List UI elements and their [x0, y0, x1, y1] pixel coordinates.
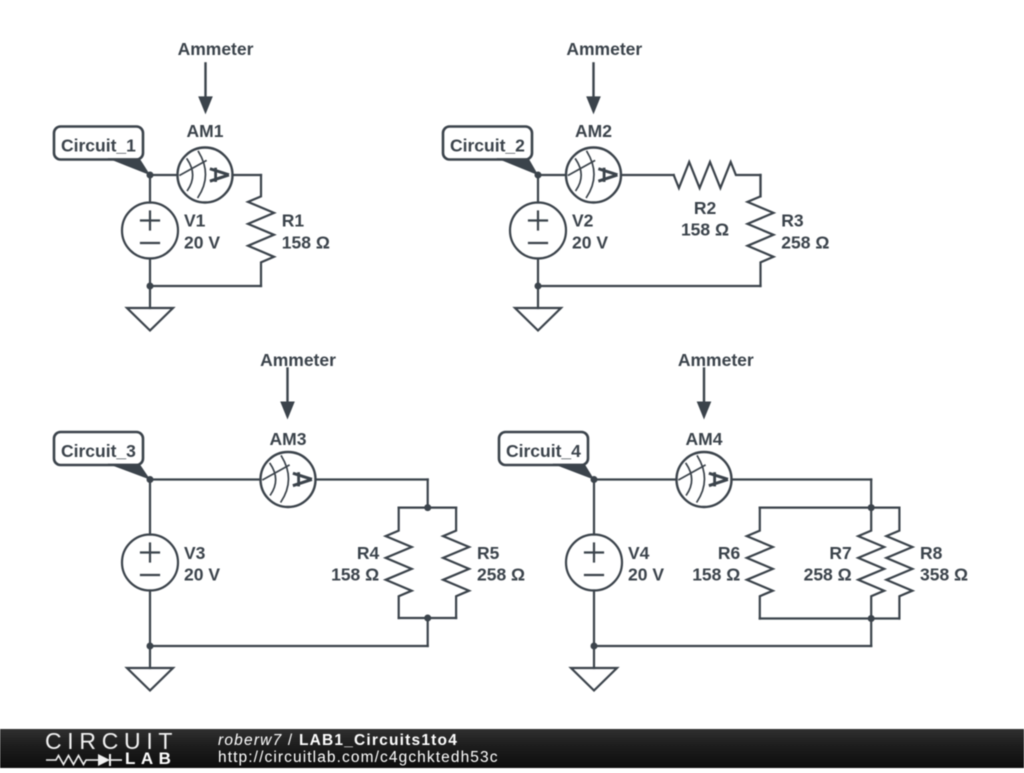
resistor R6 [747, 508, 773, 619]
logo LAB text [125, 750, 176, 767]
callout Circuit_3 [54, 432, 143, 465]
svg-text:AM2: AM2 [575, 121, 612, 141]
svg-text:Ammeter: Ammeter [178, 39, 254, 59]
svg-text:20 V: 20 V [184, 232, 220, 252]
svg-text:R3: R3 [781, 211, 804, 231]
node A2 [535, 172, 542, 179]
svg-text:158 Ω: 158 Ω [282, 232, 330, 252]
footer url [218, 750, 499, 766]
resistor R7 [858, 508, 884, 619]
svg-text:V3: V3 [184, 543, 206, 563]
svg-text:R4: R4 [357, 543, 380, 563]
svg-text:258 Ω: 258 Ω [804, 565, 852, 585]
wire bottom bus circuit 3 [399, 617, 456, 619]
wire bottom rail circuit 3 [150, 645, 428, 647]
wire right rail circuit 2 [759, 175, 761, 196]
svg-text:V4: V4 [628, 543, 650, 563]
svg-text:258 Ω: 258 Ω [781, 232, 829, 252]
wire feed to parallel pair [427, 480, 429, 508]
voltage source V2 [537, 175, 539, 203]
arrow to AM4 [703, 369, 705, 403]
svg-text:V1: V1 [184, 211, 206, 231]
wire bottom rail circuit 2 [538, 285, 761, 287]
svg-text:Circuit_2: Circuit_2 [450, 135, 525, 155]
arrow to AM2 [592, 63, 594, 97]
ammeter AM1 [178, 148, 233, 203]
wire top bus circuit 4 [760, 507, 900, 509]
svg-text:R1: R1 [282, 211, 305, 231]
resistor R2 (series horizontal) [674, 162, 761, 188]
callout Circuit_1 [54, 127, 143, 160]
svg-text:Ammeter: Ammeter [566, 39, 642, 59]
svg-text:258 Ω: 258 Ω [477, 565, 525, 585]
node A1 (V1+/AM1 junction) [147, 172, 154, 179]
node B2 [535, 283, 542, 290]
voltage source V1 [149, 175, 151, 203]
svg-text:Circuit_1: Circuit_1 [61, 135, 136, 155]
svg-text:R2: R2 [694, 198, 717, 218]
resistor R3 [748, 175, 774, 286]
svg-text:20 V: 20 V [628, 565, 664, 585]
svg-text:V2: V2 [572, 211, 594, 231]
voltage source V4 [593, 480, 595, 535]
svg-text:AM3: AM3 [270, 429, 307, 449]
svg-text:Circuit_4: Circuit_4 [506, 441, 581, 461]
svg-text:R5: R5 [477, 543, 500, 563]
footer bar [0, 729, 1024, 769]
wire down from parallel pair [427, 618, 429, 646]
voltage source V3 [149, 480, 151, 535]
resistor R8 [886, 508, 912, 619]
wire down from parallel trio [870, 619, 872, 647]
ground circuit 4 [593, 646, 595, 668]
ammeter AM2 [566, 148, 621, 203]
svg-text:20 V: 20 V [572, 232, 608, 252]
svg-text:Ammeter: Ammeter [260, 350, 336, 370]
wire bottom rail circuit 1 [150, 285, 261, 287]
wire top bus circuit 3 [399, 507, 456, 509]
wire bottom bus circuit 4 [760, 617, 900, 619]
wire feed to parallel trio [870, 480, 872, 508]
callout Circuit_4 [499, 432, 588, 465]
node B4 [591, 643, 598, 650]
resistor R1 [248, 175, 274, 286]
node D4 bottom junction [868, 615, 875, 622]
ground circuit 2 [537, 286, 539, 308]
svg-text:158 Ω: 158 Ω [681, 219, 729, 239]
svg-text:R6: R6 [718, 543, 741, 563]
arrow to AM1 [204, 63, 206, 97]
node C4 top junction [868, 504, 875, 511]
node C3 top junction [424, 504, 431, 511]
svg-text:AM1: AM1 [187, 121, 224, 141]
svg-text:Circuit_3: Circuit_3 [61, 441, 136, 461]
node D3 bottom junction [424, 615, 431, 622]
svg-text:R7: R7 [829, 543, 851, 563]
ammeter AM4 [677, 452, 732, 507]
ammeter AM3 [261, 452, 316, 507]
callout Circuit_2 [443, 127, 532, 160]
svg-text:R8: R8 [920, 543, 943, 563]
svg-text:358 Ω: 358 Ω [920, 565, 968, 585]
node B1 (ground junction) [147, 283, 154, 290]
ground circuit 3 [149, 646, 151, 668]
node A3 [147, 476, 154, 483]
svg-text:AM4: AM4 [686, 429, 723, 449]
svg-text:20 V: 20 V [184, 565, 220, 585]
footer title [218, 733, 458, 749]
wire bottom rail circuit 4 [594, 645, 871, 647]
resistor R5 [443, 508, 469, 618]
ground circuit 1 [149, 286, 151, 308]
resistor R4 [386, 508, 412, 618]
arrow to AM3 [286, 369, 288, 403]
wire top rail circuit 1 [150, 174, 178, 176]
wire top rail circuit 3 [150, 478, 261, 480]
node A4 [591, 476, 598, 483]
svg-text:158 Ω: 158 Ω [692, 565, 740, 585]
svg-text:158 Ω: 158 Ω [331, 565, 379, 585]
wire top rail circuit 2 [538, 174, 566, 176]
CircuitLab logo resistor-diode glyph [45, 752, 125, 768]
node B3 [147, 643, 154, 650]
CircuitLab logo wordmark [45, 730, 178, 753]
wire top rail circuit 4 [594, 478, 677, 480]
svg-text:Ammeter: Ammeter [678, 350, 754, 370]
